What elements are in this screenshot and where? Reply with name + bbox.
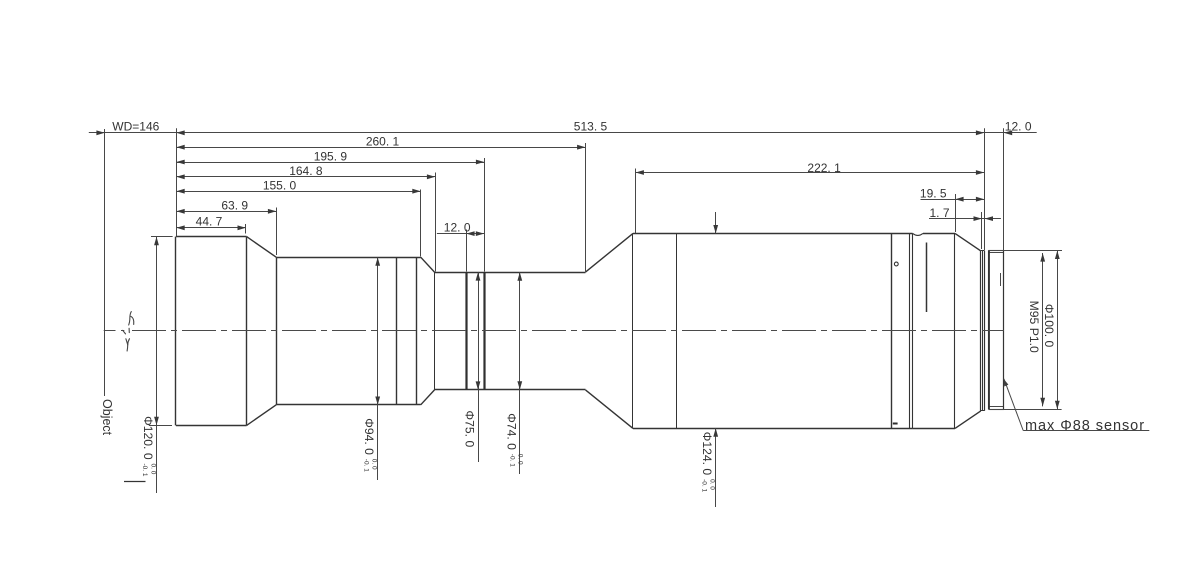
svg-text:44. 7: 44. 7 [196, 215, 223, 229]
svg-text:164. 8: 164. 8 [289, 164, 323, 178]
svg-text:12. 0: 12. 0 [1005, 120, 1032, 134]
svg-text:513. 5: 513. 5 [574, 120, 608, 134]
svg-text:19. 5: 19. 5 [920, 186, 947, 200]
svg-text:Φ94. 0: Φ94. 0 [362, 418, 376, 455]
svg-text:1. 7: 1. 7 [930, 206, 950, 220]
svg-text:0. 0: 0. 0 [516, 454, 523, 465]
svg-text:Φ120. 0: Φ120. 0 [141, 416, 155, 460]
svg-text:155. 0: 155. 0 [263, 179, 297, 193]
svg-text:Φ75. 0: Φ75. 0 [463, 410, 477, 447]
svg-text:0. 0: 0. 0 [371, 459, 378, 470]
svg-text:260. 1: 260. 1 [366, 135, 400, 149]
svg-text:0. 0: 0. 0 [709, 479, 716, 490]
svg-text:Φ124. 0: Φ124. 0 [700, 432, 714, 476]
svg-text:12. 0: 12. 0 [444, 220, 471, 234]
svg-text:-0. 1: -0. 1 [141, 463, 148, 476]
svg-text:Object: Object [100, 399, 114, 436]
svg-text:222. 1: 222. 1 [807, 161, 841, 175]
svg-text:WD=146: WD=146 [112, 120, 159, 134]
svg-text:M95 P1.0: M95 P1.0 [1027, 301, 1041, 353]
svg-text:195. 9: 195. 9 [314, 149, 348, 163]
svg-text:Φ100. 0: Φ100. 0 [1042, 304, 1056, 348]
svg-text:Φ74. 0: Φ74. 0 [504, 413, 518, 450]
svg-text:-0. 1: -0. 1 [508, 454, 515, 467]
svg-text:-0. 1: -0. 1 [362, 459, 369, 472]
svg-text:63. 9: 63. 9 [221, 198, 248, 212]
svg-text:max Φ88 sensor: max Φ88 sensor [1025, 418, 1145, 434]
svg-text:-0. 1: -0. 1 [700, 479, 707, 492]
svg-text:0. 0: 0. 0 [149, 463, 156, 474]
